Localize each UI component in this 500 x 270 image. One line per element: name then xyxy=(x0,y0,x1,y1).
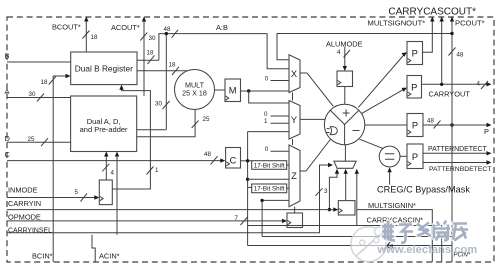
block 17-Bit Shift lower xyxy=(252,184,287,193)
svg-text:48: 48 xyxy=(164,26,171,33)
svg-text:PATTERNDETECT: PATTERNDETECT xyxy=(428,146,487,153)
mux Z xyxy=(289,145,300,207)
node A:B junction xyxy=(165,32,168,35)
register M xyxy=(225,79,241,102)
svg-text:25 X 18: 25 X 18 xyxy=(182,88,207,97)
register C xyxy=(226,148,241,169)
register OPMODE xyxy=(287,213,303,228)
wire PCOUT / P bus / PCIN vertical xyxy=(451,19,453,262)
wire PATTERNDETECT xyxy=(423,152,489,154)
svg-text:CARRYOUT: CARRYOUT xyxy=(429,90,471,99)
wire ACOUT riser with arrow xyxy=(143,19,145,96)
ALU logic gate glyph xyxy=(330,127,337,135)
register INMODE xyxy=(99,180,112,205)
svg-text:PCOUT*: PCOUT* xyxy=(455,19,485,28)
wire into shift2 xyxy=(248,186,252,188)
wire MULT out xyxy=(215,89,226,91)
svg-text:P: P xyxy=(411,83,417,93)
svg-text:18: 18 xyxy=(91,34,98,41)
svg-text:17-Bit Shift: 17-Bit Shift xyxy=(254,162,285,169)
ALU plus sign xyxy=(343,110,350,117)
watermark logo circle xyxy=(351,227,386,262)
wire A:B bus xyxy=(159,34,289,69)
wire B reg out to MULT xyxy=(137,70,188,72)
wire C input xyxy=(7,160,223,162)
wire INMODE reg to A,D box xyxy=(105,154,107,180)
register P4 (pattern detect) xyxy=(407,144,423,169)
mux X xyxy=(289,55,300,93)
wire Y out to ALU xyxy=(300,118,325,120)
wire AD out to MULT xyxy=(137,110,195,137)
wire INMODE xyxy=(7,197,97,199)
register Dual A, D, and Pre-adder xyxy=(71,96,137,152)
svg-text:BCIN*: BCIN* xyxy=(32,252,53,261)
svg-text:www.elecfans.com: www.elecfans.com xyxy=(377,244,478,256)
svg-text:30: 30 xyxy=(149,35,156,42)
svg-text:18: 18 xyxy=(147,50,154,57)
wire C to Z xyxy=(248,178,289,180)
wire CARRYCASCIN xyxy=(248,226,442,263)
wire B input xyxy=(7,61,71,63)
svg-text:0: 0 xyxy=(265,75,269,82)
multiplier MULT 25x18 xyxy=(175,70,215,110)
svg-text:A: A xyxy=(5,87,10,96)
svg-text:ACOUT*: ACOUT* xyxy=(111,23,140,32)
svg-text:4: 4 xyxy=(337,49,341,56)
svg-text:48: 48 xyxy=(204,151,211,158)
register P2 (CARRYOUT/CARRYCASCOUT) xyxy=(407,76,422,99)
mux Y xyxy=(289,101,300,140)
wire BCOUT riser with arrow xyxy=(85,19,87,52)
register P1 (MULTSIGNOUT) xyxy=(407,42,423,65)
svg-text:INMODE: INMODE xyxy=(8,186,38,195)
wire P feedback top xyxy=(277,34,452,60)
block 17-Bit Shift upper xyxy=(252,161,287,170)
wire P feedback to Z xyxy=(262,200,289,236)
register Dual B Register xyxy=(71,52,137,85)
wire A riser to A:B xyxy=(165,34,167,130)
mux carry-in select xyxy=(334,161,356,168)
wire bottom PCIN feedback H3 xyxy=(248,245,452,247)
wire Z out to ALU xyxy=(300,140,330,172)
svg-text:Y: Y xyxy=(291,115,297,125)
svg-text:MULTSIGNIN*: MULTSIGNIN* xyxy=(368,201,416,210)
wire D input xyxy=(7,141,71,143)
svg-text:3: 3 xyxy=(324,188,328,195)
wire mux select stubs xyxy=(292,93,294,101)
svg-text:25: 25 xyxy=(203,116,210,123)
wire M out to X and Y xyxy=(241,90,290,92)
svg-text:CARRYIN: CARRYIN xyxy=(8,199,41,208)
svg-text:A:B: A:B xyxy=(216,23,228,32)
wire bottom P feedback H2 xyxy=(262,236,452,238)
wire carry mux input 1 (CARRYIN bypass) xyxy=(329,171,337,210)
svg-text:4: 4 xyxy=(477,81,481,88)
wire C to Y xyxy=(248,131,289,133)
wire CARRYIN xyxy=(7,209,336,211)
svg-text:4: 4 xyxy=(111,170,115,177)
svg-text:P: P xyxy=(412,121,418,131)
wire ALU to P1 diag xyxy=(358,53,405,107)
svg-text:0: 0 xyxy=(264,111,268,118)
svg-text:MULTSIGNOUT*: MULTSIGNOUT* xyxy=(368,19,426,28)
register P3 (P out) xyxy=(407,114,423,137)
svg-text:B: B xyxy=(5,52,10,61)
svg-text:PATTERNBDETECT: PATTERNBDETECT xyxy=(429,166,491,173)
svg-text:M: M xyxy=(229,86,237,96)
svg-text:30: 30 xyxy=(155,101,162,108)
wire MULTSIGNIN xyxy=(357,210,433,262)
svg-text:ACIN*: ACIN* xyxy=(99,252,120,261)
svg-text:P: P xyxy=(412,49,418,59)
svg-text:and Pre-adder: and Pre-adder xyxy=(80,125,128,134)
svg-text:1: 1 xyxy=(264,118,268,125)
svg-text:P: P xyxy=(412,152,418,162)
comparator = circle xyxy=(379,146,400,167)
svg-text:Z: Z xyxy=(291,171,297,181)
wire OPMODE xyxy=(7,220,285,222)
svg-text:P: P xyxy=(484,127,489,136)
svg-text:CARRYCASCIN*: CARRYCASCIN* xyxy=(367,216,424,225)
svg-text:18: 18 xyxy=(41,79,48,86)
wire X out to ALU xyxy=(300,73,333,106)
svg-text:C: C xyxy=(5,150,11,159)
svg-text:5: 5 xyxy=(75,189,79,196)
svg-text:25: 25 xyxy=(28,136,35,143)
wire carry mux input 2 (registered) xyxy=(345,171,347,201)
svg-text:18: 18 xyxy=(169,62,176,69)
wire C out xyxy=(241,160,252,162)
svg-text:C: C xyxy=(230,156,237,166)
svg-text:17-Bit Shift: 17-Bit Shift xyxy=(254,186,285,193)
wire INMODE reg to B reg xyxy=(112,87,150,189)
wire C vertical bus V1 xyxy=(247,132,249,246)
wire A out to riser xyxy=(137,129,167,131)
svg-text:7: 7 xyxy=(235,215,239,222)
svg-text:30: 30 xyxy=(29,91,36,98)
svg-text:BCOUT*: BCOUT* xyxy=(52,23,81,32)
wire B reg out to A:B xyxy=(137,59,159,61)
svg-text:CREG/C Bypass/Mask: CREG/C Bypass/Mask xyxy=(377,184,470,194)
wire CREG/C bypass into comparator xyxy=(389,170,391,185)
svg-text:Dual B Register: Dual B Register xyxy=(75,63,133,73)
svg-text:D: D xyxy=(5,134,10,143)
ALU minus sign xyxy=(353,130,360,132)
svg-text:OPMODE: OPMODE xyxy=(8,212,41,221)
watermark chinese characters (drawn strokes) xyxy=(382,221,468,244)
ALU circle xyxy=(324,104,364,144)
svg-text:1: 1 xyxy=(155,167,159,174)
wire ALU to comparator diag xyxy=(360,139,384,148)
wire CARRYINSEL xyxy=(7,165,331,233)
svg-text:0: 0 xyxy=(265,146,269,153)
wire ALU to P2 diag xyxy=(362,88,406,113)
svg-text:CARRYCASCOUT*: CARRYCASCOUT* xyxy=(388,7,476,18)
wire carry mux input 3 (cascade) xyxy=(356,171,358,226)
wire ALU to P3 xyxy=(365,124,407,126)
wire BCIN riser xyxy=(53,76,68,262)
svg-text:CARRYINSEL: CARRYINSEL xyxy=(8,228,52,235)
svg-text:48: 48 xyxy=(457,52,464,59)
register CARRYIN xyxy=(338,201,355,215)
svg-text:X: X xyxy=(291,69,297,79)
wire PATTERNBDETECT xyxy=(423,162,489,164)
wire A input xyxy=(7,97,71,99)
svg-text:48: 48 xyxy=(427,118,434,125)
wire ACIN riser xyxy=(92,235,95,262)
